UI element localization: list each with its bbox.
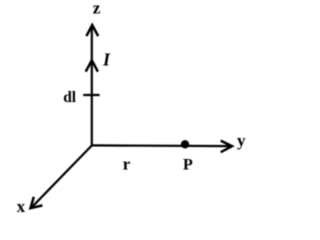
svg-text:x: x xyxy=(17,197,26,216)
svg-text:r: r xyxy=(123,154,131,173)
svg-text:I: I xyxy=(102,50,111,70)
svg-text:y: y xyxy=(237,131,246,150)
svg-text:dl: dl xyxy=(63,89,77,106)
svg-text:P: P xyxy=(183,157,193,174)
svg-text:z: z xyxy=(93,0,101,18)
